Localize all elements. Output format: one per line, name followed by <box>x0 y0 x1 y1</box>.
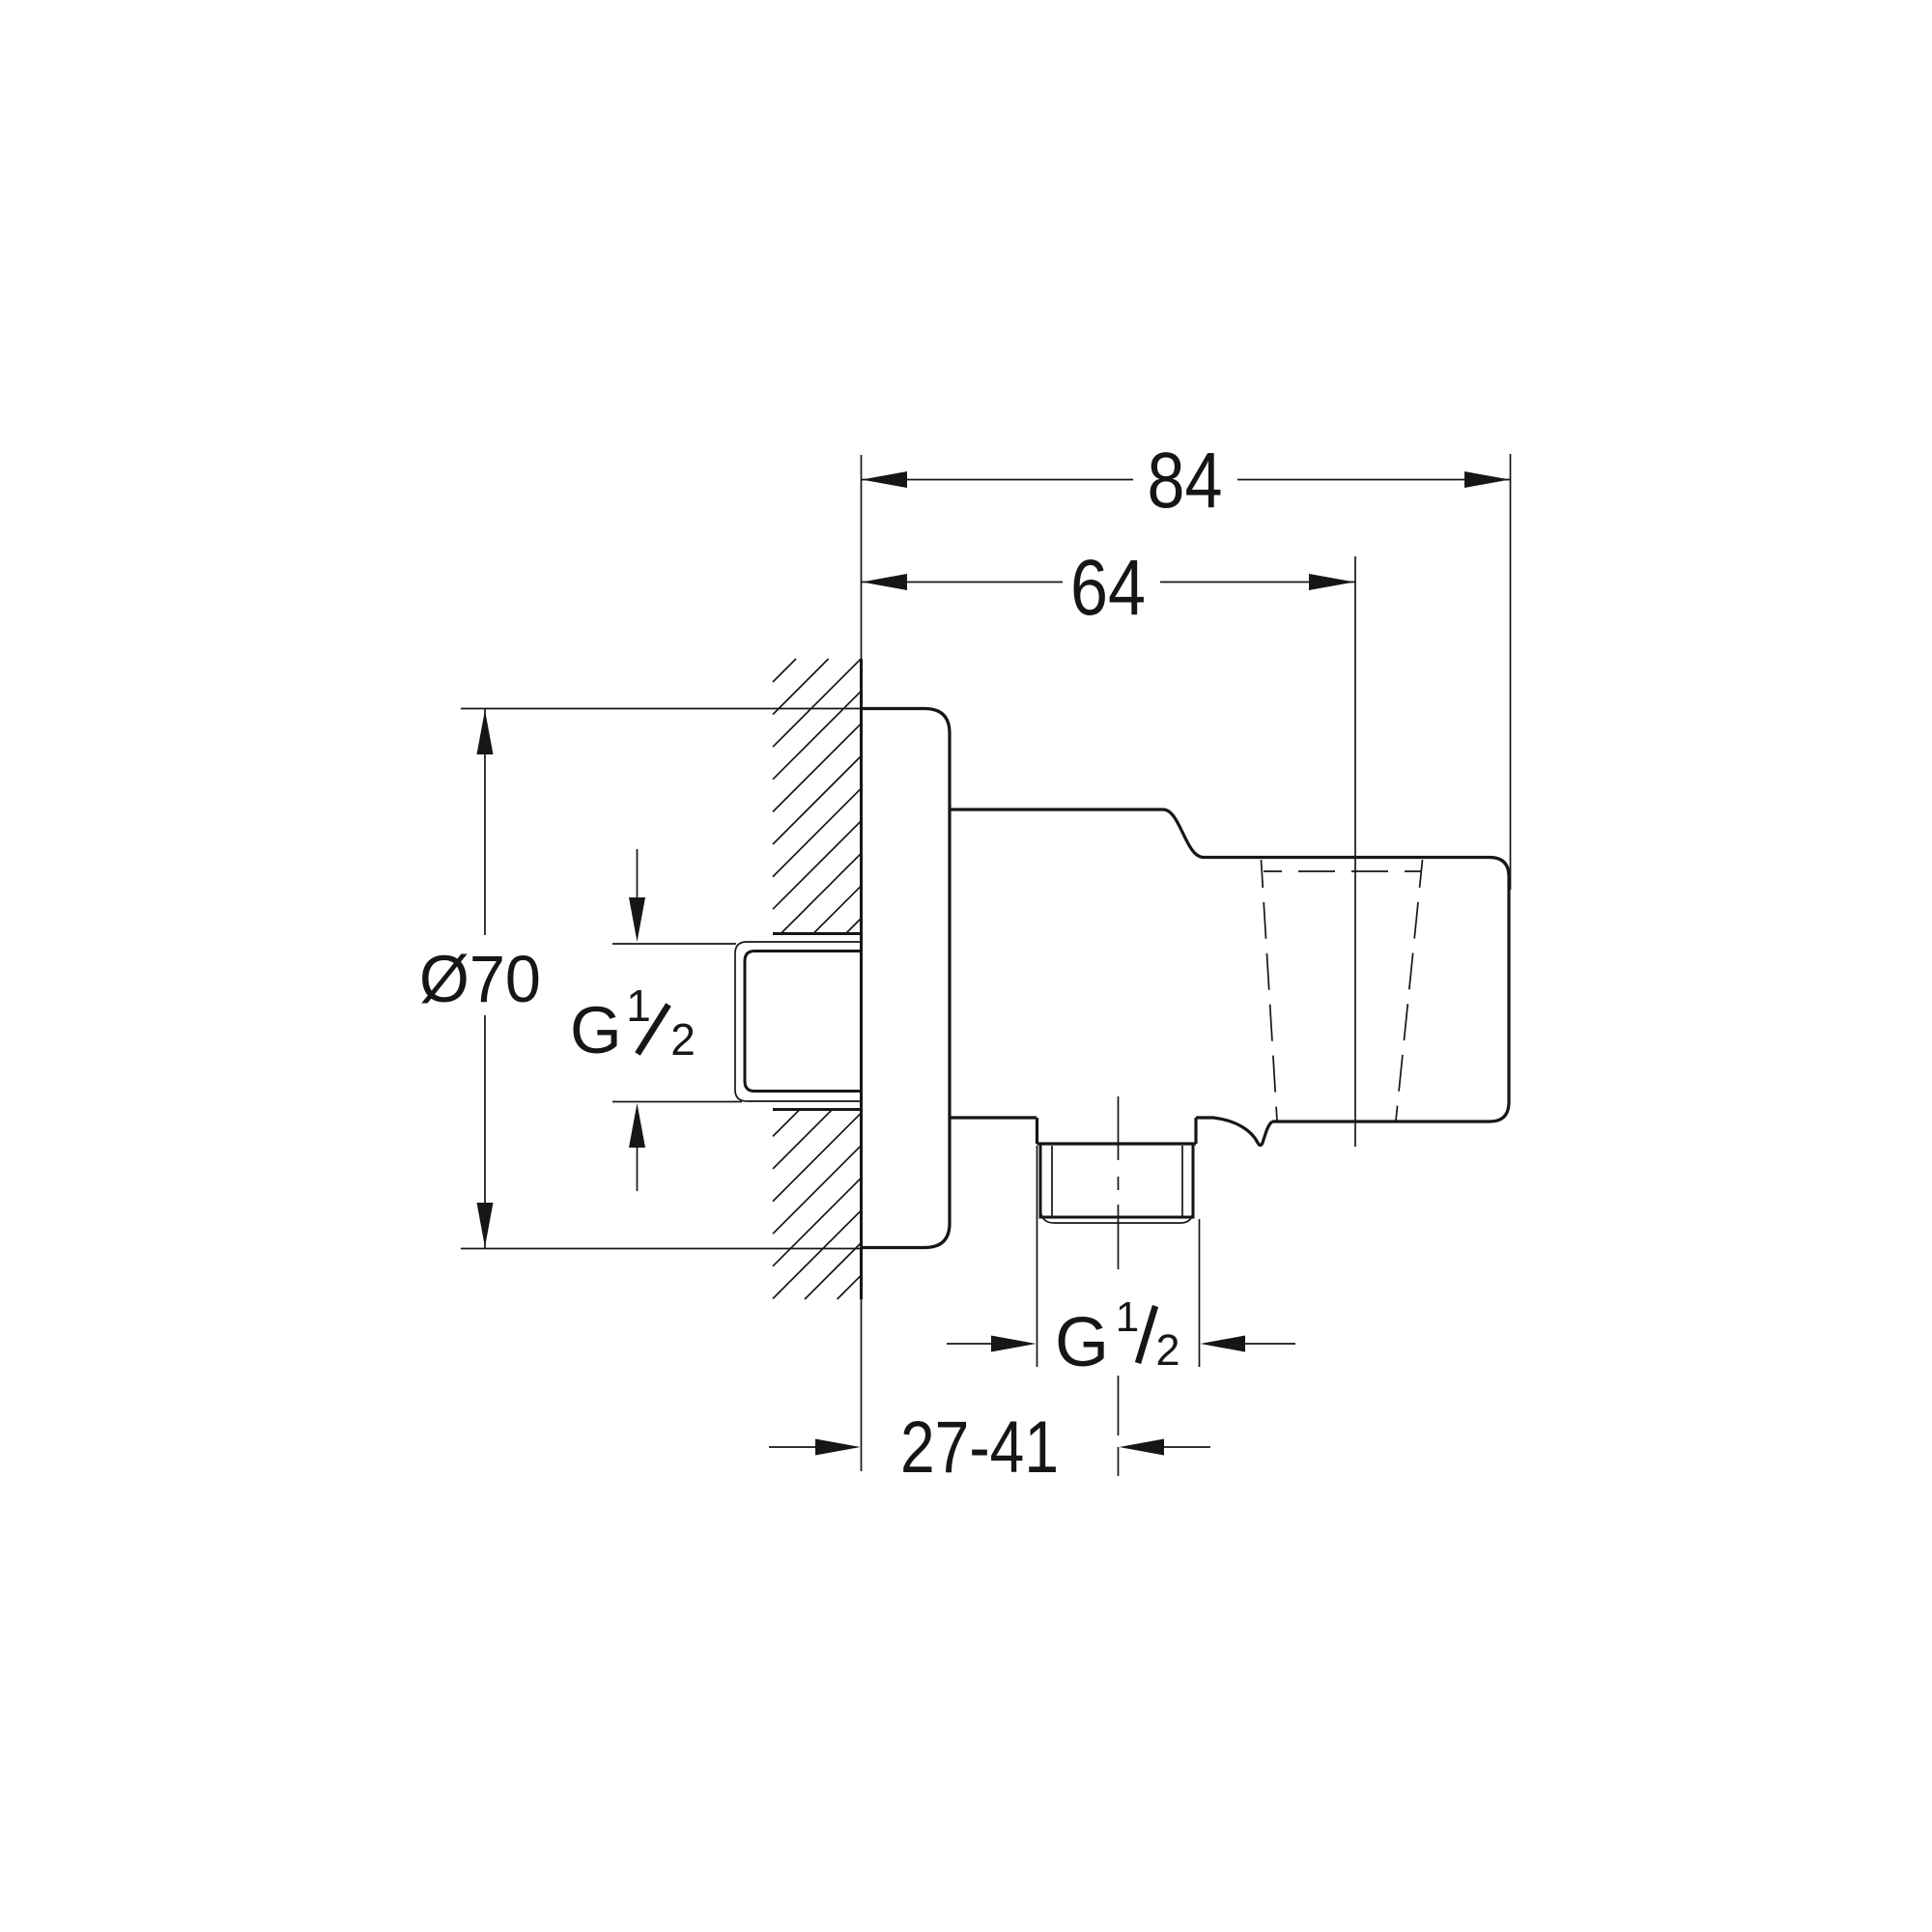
hidden cone dashed lines <box>1262 860 1423 1121</box>
body top edge <box>950 810 1204 858</box>
outlet end chamfer <box>1040 1209 1193 1223</box>
inlet G 1/2 upper arrow <box>629 849 645 942</box>
svg-text:2: 2 <box>670 1014 696 1065</box>
wall hatching lower <box>773 1110 861 1299</box>
diameter 70 top extension line <box>461 708 861 710</box>
outlet wide section <box>1037 1118 1197 1144</box>
dimension 27-41 <box>769 1406 1210 1489</box>
svg-text:1: 1 <box>1116 1293 1139 1341</box>
outlet thread root lines <box>1052 1146 1182 1217</box>
svg-text:2: 2 <box>1155 1325 1179 1375</box>
wall surface line <box>860 659 863 1299</box>
inlet G 1/2 lower arrow <box>629 1103 645 1191</box>
inlet G 1/2 label <box>570 980 696 1067</box>
svg-text:G: G <box>570 993 622 1067</box>
wall hole top edge <box>773 932 861 935</box>
holder cup outline <box>1204 858 1509 1122</box>
inlet G 1/2 upper extension line <box>612 943 736 945</box>
inlet thread body <box>745 952 861 1092</box>
outlet left extension line <box>1037 1146 1038 1367</box>
svg-text:64: 64 <box>1070 544 1146 632</box>
outlet right extension line <box>1199 1219 1201 1367</box>
wall extension line <box>861 455 863 1471</box>
wall hatching upper <box>773 659 861 933</box>
svg-text:Ø70: Ø70 <box>419 942 541 1016</box>
dimension diameter 70 <box>419 709 541 1248</box>
cup centerline / 64 extension line <box>1354 556 1356 1147</box>
inlet thread outer thin rect <box>735 942 861 1101</box>
wall hole bottom edge <box>773 1108 861 1111</box>
svg-text:1: 1 <box>626 980 651 1031</box>
inlet G 1/2 lower extension line <box>612 1101 742 1103</box>
dimension 64 <box>861 544 1355 632</box>
svg-text:27-41: 27-41 <box>900 1406 1059 1489</box>
flange <box>861 709 950 1248</box>
outlet G 1/2 left arrow <box>947 1336 1037 1352</box>
svg-text:G: G <box>1055 1304 1109 1381</box>
outlet G 1/2 right arrow <box>1201 1336 1296 1352</box>
diameter 70 bottom extension line <box>461 1248 861 1250</box>
outlet centerline <box>1118 1096 1120 1476</box>
body bottom edge with spout notch <box>950 1118 1272 1146</box>
outlet thread body <box>1040 1144 1193 1217</box>
outlet G 1/2 label <box>1055 1293 1180 1381</box>
dimension 84 <box>861 437 1511 525</box>
svg-text:84: 84 <box>1148 437 1223 525</box>
84 right extension line <box>1510 454 1512 890</box>
